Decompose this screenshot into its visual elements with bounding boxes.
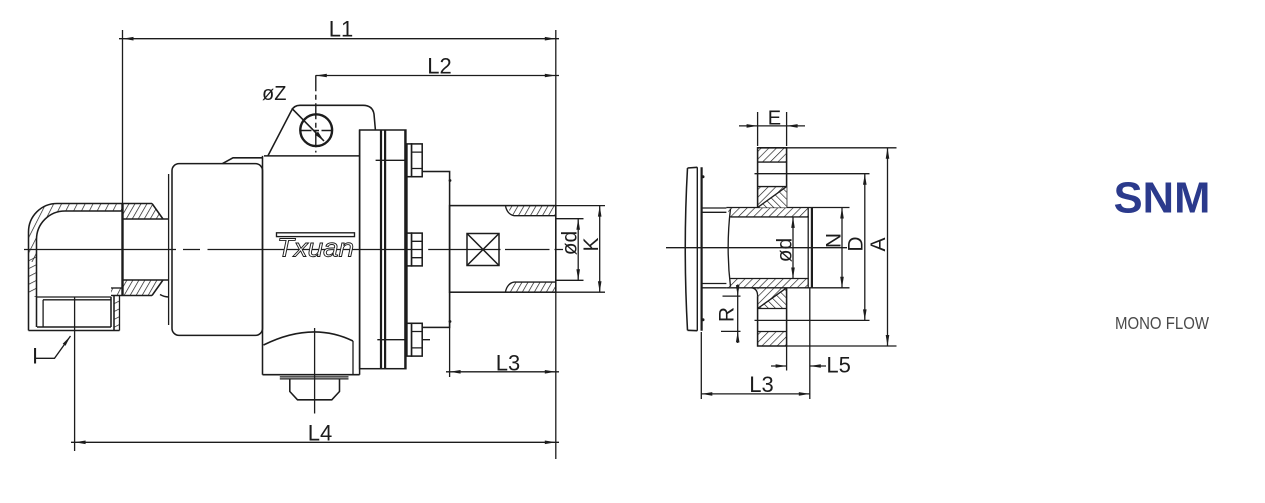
L1 arrows [123,37,134,41]
svg-text:K: K [580,237,603,251]
dimension L1 line [119,38,559,40]
main body bottom edge [263,374,360,376]
hex drain plug [290,379,340,400]
disc top face [688,166,698,169]
elbow port end face [29,327,120,331]
L5 arrows outside [776,364,787,368]
elbow arm bottom inner [111,287,123,289]
L2 arrows [316,74,327,78]
flange column top triangle reversed hatch [758,187,787,208]
svg-text:L5: L5 [826,353,850,378]
dimension N extensions [812,208,850,288]
square drive symbol [467,234,499,266]
dimension L3 right line [701,393,810,395]
hub fillet dots [449,179,452,182]
I leader arrow [63,336,71,346]
bolt nut top [412,144,423,177]
drain plug centerline [314,328,316,414]
main horizontal centerline [24,249,563,251]
socket end face [121,204,123,296]
elbow port shoulder [37,297,111,300]
E arrows outside [747,124,758,128]
dimension L3 left line [446,371,559,373]
flange block outline [360,130,406,369]
od left extensions [556,219,584,281]
dimension L4 line [71,441,559,443]
svg-text:R: R [716,307,739,322]
dimension L5 extensions [787,288,810,371]
disc right edges [696,167,698,330]
flange column bottom hatch [758,288,787,309]
od right arrows [791,217,795,228]
I label leader [36,336,71,358]
shared right extension line [555,30,557,459]
flange column bottom outline [758,288,787,346]
body bottom step line [352,341,354,375]
dimension D line [864,174,866,321]
svg-text:E: E [768,108,781,130]
elbow port right wall [111,295,114,330]
hub right edge double [807,208,809,288]
oZ leader line [292,108,324,141]
flange right edge thick [404,130,406,369]
svg-text:øZ: øZ [262,83,286,105]
eyebolt hole circle [300,114,332,146]
eyebolt hole vertical centerline [315,75,317,152]
svg-text:ød: ød [773,238,796,263]
Txuan logo overline [277,233,355,237]
nipple thread bottom band [506,282,556,292]
lifting lug [268,105,376,156]
svg-text:L2: L2 [427,54,451,79]
flange column top hatch [758,148,787,162]
bearing cap outer lip [168,174,170,325]
hub bottom band hatch [726,279,808,288]
svg-text:SNM: SNM [1114,175,1211,223]
rotor pipe bottom surface [123,279,169,281]
eyebolt hole horizontal dash [302,130,333,132]
dimension K line [599,206,601,293]
main body left edge [262,156,264,375]
hub left barrel curve [728,209,730,287]
bolt washer bottom [407,323,412,356]
svg-text:I: I [32,344,38,369]
disc fillet dots [702,175,705,178]
svg-text:MONO FLOW: MONO FLOW [1115,313,1209,333]
thread engagement top band [123,204,164,220]
bolt washer top [407,144,412,177]
dimension R line [737,285,739,344]
dimension A line [887,148,889,346]
bolt hole top centerline / D ext top [755,173,870,175]
D arrows [863,174,867,185]
dimension E line [739,125,805,127]
bolt washer middle [407,233,412,266]
hub top band outline [726,208,812,217]
rotor pipe top surface [123,218,169,220]
bolt nut bottom [412,323,423,356]
disc bottom face [688,329,698,331]
svg-text:Txuan: Txuan [277,233,354,263]
nipple outline [450,206,556,293]
E extensions [758,112,787,146]
elbow wall hatch left band [29,255,37,297]
main body top edge [264,155,360,157]
hub top band hatch [726,208,808,217]
dimension L5 line [771,365,826,367]
dimension A extensions [787,148,897,346]
L4 arrows [75,441,86,445]
elbow port right wall hatch [114,297,120,331]
A arrows [886,148,890,159]
elbow arm bottom outer [111,295,152,297]
dimension L2 line [316,75,559,77]
L3 right arrows [701,392,712,396]
drain plate lines [280,377,349,379]
bolt axis bottom [377,339,430,341]
main body right edge shared with flange [359,130,361,375]
bolt nut middle [412,233,423,266]
nipple thread top band [506,206,556,216]
flange column top outline [758,148,787,208]
svg-text:D: D [845,236,868,251]
svg-text:L3: L3 [496,351,520,376]
oZ leader arrowhead [315,132,324,141]
bolt axis top [376,159,411,161]
L1 left extension [122,30,124,203]
L3 left extension [449,292,451,377]
dimension N line [841,208,843,288]
svg-text:A: A [867,237,890,251]
neck inner lines [702,212,727,283]
L3 left arrows [450,370,461,374]
dimension L3 right extensions [701,332,810,399]
bearing cap body [172,164,263,336]
flange column bottom diagonal [758,288,787,309]
R arrows [736,285,740,296]
body bottom dome curve [264,332,354,345]
elbow wall hatch top band [29,204,123,263]
elbow inner profile [37,211,123,327]
elbow arm bottom band hatch [111,288,123,296]
elbow outer profile [29,204,123,331]
right view centerline [666,247,847,249]
K extensions [556,206,605,293]
disc left arc [685,168,687,330]
N arrows [840,208,844,219]
cap top boss [223,158,263,164]
port centerline and L4 extension [74,297,76,452]
flange interface double lines [381,130,385,369]
dimension od left view line [577,219,579,281]
thread engagement bottom band [123,280,164,296]
hub between flange and nipple [407,172,450,328]
hub bottom band outline [726,279,812,288]
svg-text:ød: ød [559,231,582,256]
column fillet radius R [752,288,758,296]
svg-text:L4: L4 [308,421,332,446]
svg-text:N: N [822,233,845,248]
dimension R extensions [721,296,741,331]
flange column top diagonal [758,187,787,208]
elbow port thread line [42,300,44,327]
bolt hole bottom centerline / D ext bottom [755,319,870,321]
svg-text:L1: L1 [329,17,353,42]
od left arrows [576,219,580,230]
neck outer lines [702,208,727,288]
K arrows [598,206,602,217]
dimension od right view line [792,217,794,279]
svg-text:L3: L3 [749,372,773,397]
